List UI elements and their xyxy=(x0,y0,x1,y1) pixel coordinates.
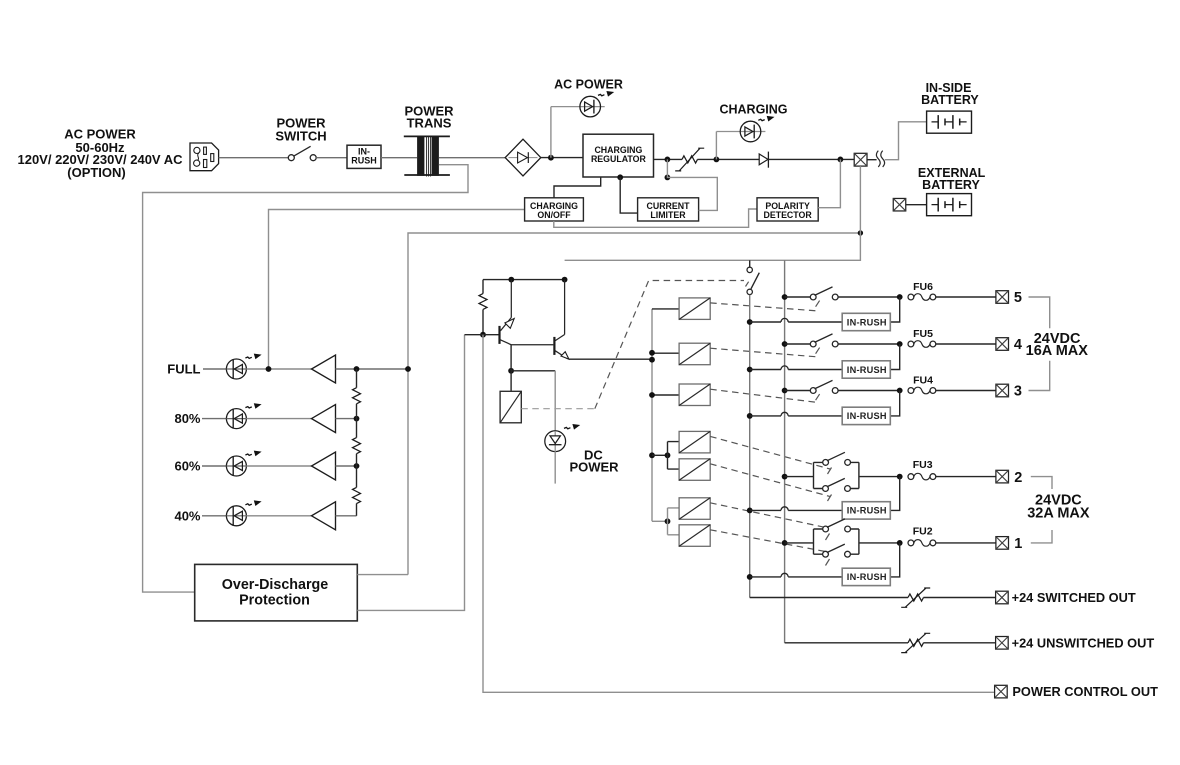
indicator LED 60% with comparator xyxy=(174,451,335,480)
svg-text:+24 SWITCHED OUT: +24 SWITCHED OUT xyxy=(1012,590,1136,605)
divider resistor R3 xyxy=(353,466,361,516)
wire in-rush return row 5 xyxy=(890,297,899,322)
wire row 3 to fuse xyxy=(838,388,903,394)
wire in-rush feed row 3 xyxy=(750,412,843,416)
wire diode to output fuse xyxy=(768,158,854,160)
junction regulator output node xyxy=(665,157,671,163)
wire FU2 to output 1 xyxy=(936,542,996,544)
relay K3 xyxy=(649,343,710,365)
wire bus to switch row 2 xyxy=(785,476,814,478)
wire regulator output xyxy=(654,158,683,160)
svg-text:IN-RUSH: IN-RUSH xyxy=(847,411,887,421)
wire row 5 to fuse xyxy=(838,294,903,300)
relay K4 xyxy=(649,384,710,406)
fuse FU3 xyxy=(908,459,936,480)
wire switch to in-rush xyxy=(316,157,347,159)
wire in-rush return row 4 xyxy=(890,344,899,370)
junction in-rush feed row 3 xyxy=(747,413,753,419)
svg-text:IN-RUSH: IN-RUSH xyxy=(847,506,887,516)
wire in-rush return row 3 xyxy=(890,391,899,416)
bias resistor R4 xyxy=(479,280,487,335)
relay K6 xyxy=(679,459,710,481)
dashed linkage K2 to switch 5 xyxy=(710,301,819,311)
bridge rectifier BR1 xyxy=(505,139,541,176)
in-rush block row 5 xyxy=(842,313,890,330)
wire base rail xyxy=(465,334,499,336)
svg-text:32A MAX: 32A MAX xyxy=(1027,506,1090,522)
output connector 2 xyxy=(996,470,1022,486)
junction polarity detector tap xyxy=(838,157,844,163)
wire sense line to fuse node xyxy=(408,233,860,575)
wire FU3 to output 2 xyxy=(936,476,996,478)
svg-text:5: 5 xyxy=(1014,290,1022,306)
wire charging on/off to polarity detector xyxy=(554,209,757,227)
charging regulator block U1 xyxy=(583,134,654,177)
wire 40% comparator output xyxy=(336,515,357,517)
junction bus row 4 xyxy=(782,341,788,347)
dashed linkage K8 to switch 1b xyxy=(710,530,829,566)
wire regulator to charging on/off xyxy=(554,177,601,198)
output connector 3 xyxy=(996,384,1022,400)
relay pair K5 K6 feed xyxy=(649,442,679,470)
in-rush block row 4 xyxy=(842,361,890,378)
dashed linkage K4 to switch 3 xyxy=(710,389,819,402)
junction in-rush feed row 1 xyxy=(747,574,753,580)
wire bus to switch row 1 xyxy=(785,542,814,544)
in-rush block row 3 xyxy=(842,407,890,424)
wire in-rush feed row 4 xyxy=(750,366,843,370)
wire transformer secondary loop to over-discharge protection xyxy=(143,165,468,592)
wire 60% comparator output xyxy=(336,463,360,469)
wire FU6 to output 5 xyxy=(936,296,996,298)
wire bridge to charging regulator xyxy=(541,157,583,159)
svg-text:DETECTOR: DETECTOR xyxy=(763,210,812,220)
junction Q2 feed xyxy=(649,357,655,363)
switch contact row 4 xyxy=(785,334,839,347)
svg-text:LIMITER: LIMITER xyxy=(650,210,686,220)
svg-text:60%: 60% xyxy=(174,459,200,474)
switch contact row 5 xyxy=(785,287,839,300)
wire Q2 emitter to relay feed xyxy=(569,358,653,360)
wire in-rush feed row 2 xyxy=(750,507,843,511)
wire FULL comparator output xyxy=(336,366,411,372)
wire fusible resistor to diode xyxy=(697,158,759,160)
AC inlet connector J1 xyxy=(190,143,219,171)
svg-text:FU5: FU5 xyxy=(913,328,933,340)
svg-text:Protection: Protection xyxy=(239,593,310,609)
svg-text:FU2: FU2 xyxy=(913,525,933,537)
junction bus row 3 xyxy=(782,388,788,394)
dashed linkage K7 to switch 1a xyxy=(710,503,829,540)
transistor Q1 xyxy=(500,280,554,345)
wire to DC power LED xyxy=(511,371,555,431)
output connector 1 xyxy=(996,536,1022,552)
fuse FU2 xyxy=(908,525,936,546)
svg-text:FU4: FU4 xyxy=(913,375,933,387)
wire to in-side battery xyxy=(885,122,927,160)
svg-text:POWER: POWER xyxy=(569,460,619,475)
wire relay feed bus xyxy=(651,309,653,521)
svg-text:FU6: FU6 xyxy=(913,281,933,293)
svg-text:IN-RUSH: IN-RUSH xyxy=(847,572,887,582)
power transformer T1 xyxy=(404,104,454,177)
relay K2 xyxy=(652,298,710,320)
power switch S1 xyxy=(275,116,326,161)
wire 80% comparator output xyxy=(336,416,360,422)
transistor Q2 xyxy=(554,280,569,360)
in-rush limiter block xyxy=(347,145,381,168)
svg-text:IN-RUSH: IN-RUSH xyxy=(847,317,887,327)
svg-text:FULL: FULL xyxy=(167,362,200,377)
wire FU5 to output 4 xyxy=(936,343,996,345)
junction in-rush feed row 2 xyxy=(747,508,753,514)
junction bridge output xyxy=(548,155,554,161)
svg-text:80%: 80% xyxy=(174,411,200,426)
svg-text:IN-RUSH: IN-RUSH xyxy=(847,365,887,375)
svg-text:FU3: FU3 xyxy=(913,459,933,471)
output +24 SWITCHED OUT xyxy=(750,588,1136,607)
svg-text:AC POWER: AC POWER xyxy=(554,77,623,91)
wire FU4 to output 3 xyxy=(936,390,996,392)
junction charging LED tap xyxy=(714,157,720,163)
charging on/off block xyxy=(269,198,584,369)
fuse FU6 xyxy=(908,281,936,300)
wire in-rush feed row 5 xyxy=(750,318,843,322)
output +24 UNSWITCHED OUT xyxy=(785,633,1155,652)
svg-text:+24 UNSWITCHED OUT: +24 UNSWITCHED OUT xyxy=(1012,635,1155,650)
main DC switch S2 xyxy=(747,260,759,294)
bracket 24VDC 16A MAX xyxy=(1026,297,1089,391)
wire J1 to power switch xyxy=(219,157,289,159)
indicator LED AC POWER xyxy=(551,77,623,157)
current limiter block xyxy=(638,198,699,221)
in-rush block row 1 xyxy=(842,568,890,585)
svg-text:POWER CONTROL OUT: POWER CONTROL OUT xyxy=(1012,684,1158,699)
fuse FU1 crossed box xyxy=(854,153,867,166)
svg-text:1: 1 xyxy=(1014,536,1022,552)
junction bus row 5 xyxy=(782,294,788,300)
switch contact row 3 xyxy=(785,380,839,393)
divider resistor R1 xyxy=(353,369,361,419)
svg-text:2: 2 xyxy=(1014,470,1022,486)
wire over-discharge upper output xyxy=(357,574,408,576)
diode D1 xyxy=(759,152,768,168)
wire switch to fuse row 1 xyxy=(859,540,903,546)
wire regulator to current limiter xyxy=(617,174,637,213)
double switch row 1 xyxy=(814,519,859,557)
fuse FU5 xyxy=(908,328,936,347)
junction in-rush feed row 5 xyxy=(747,319,753,325)
svg-text:40%: 40% xyxy=(174,508,200,523)
svg-text:ON/OFF: ON/OFF xyxy=(537,210,571,220)
svg-text:(OPTION): (OPTION) xyxy=(67,165,126,180)
in-rush block row 2 xyxy=(842,502,890,519)
junction base node xyxy=(480,332,486,338)
svg-text:TRANS: TRANS xyxy=(407,116,452,131)
relay K8 xyxy=(679,525,710,547)
relay pair K7 K8 feed xyxy=(652,508,679,535)
wire below DC power LED xyxy=(554,452,556,484)
in-side battery BT1 xyxy=(921,81,979,133)
bus unswitched DC xyxy=(784,260,786,643)
output connector 4 xyxy=(996,337,1022,353)
wire in-rush feed row 1 xyxy=(750,573,843,577)
fuse FU4 xyxy=(908,375,936,394)
svg-text:RUSH: RUSH xyxy=(351,156,377,166)
svg-text:16A MAX: 16A MAX xyxy=(1026,343,1089,359)
svg-text:SWITCH: SWITCH xyxy=(275,129,326,144)
dashed linkage K3 to switch 4 xyxy=(710,348,819,357)
junction sense line fuse riser xyxy=(858,230,863,235)
junction bus row 1 xyxy=(782,540,788,546)
relay K7 xyxy=(679,498,710,520)
relay K5 xyxy=(679,431,710,453)
polarity detector block xyxy=(757,198,818,221)
bus switched DC xyxy=(749,295,751,598)
junction in-rush feed row 4 xyxy=(747,367,753,373)
junction bus row 2 xyxy=(782,474,788,480)
divider resistor R2 xyxy=(353,419,361,466)
svg-text:3: 3 xyxy=(1014,384,1022,400)
indicator LED 40% with comparator xyxy=(174,500,335,529)
junction FULL LED node xyxy=(266,366,272,372)
dashed linkage K6 to switch 2b xyxy=(710,464,831,501)
wire transformer to bridge rectifier xyxy=(439,157,505,159)
indicator LED CHARGING xyxy=(716,103,787,160)
external battery BT2 with connector xyxy=(893,166,985,216)
svg-text:Over-Discharge: Over-Discharge xyxy=(222,577,329,593)
svg-text:REGULATOR: REGULATOR xyxy=(591,154,647,164)
indicator LED 80% with comparator xyxy=(174,403,335,432)
svg-text:4: 4 xyxy=(1014,337,1022,353)
wire fuse to DC rail xyxy=(565,166,861,260)
wire in-rush return row 1 xyxy=(890,543,899,577)
svg-text:BATTERY: BATTERY xyxy=(922,178,980,192)
dashed linkage relay coil to main switch xyxy=(521,281,748,409)
wire current limiter sense xyxy=(665,159,718,210)
wire in-rush return row 2 xyxy=(890,477,899,511)
svg-text:CHARGING: CHARGING xyxy=(719,103,787,117)
wire collector rail top xyxy=(483,277,567,283)
double switch row 2 xyxy=(814,452,859,491)
net label AC POWER input ratings xyxy=(17,127,183,180)
svg-text:BATTERY: BATTERY xyxy=(921,93,979,107)
wire polarity detector to charge node xyxy=(818,159,840,207)
output connector 5 xyxy=(996,290,1022,306)
bracket 24VDC 32A MAX xyxy=(1027,477,1090,543)
dashed linkage K5 to switch 2a xyxy=(710,436,831,474)
over-discharge protection block xyxy=(195,564,358,621)
fusible resistor R-charge xyxy=(675,148,704,171)
wire in-rush to transformer xyxy=(381,157,417,159)
wire break squiggle xyxy=(867,151,885,167)
wire switch to fuse row 2 xyxy=(859,474,903,480)
junction relay coil node xyxy=(508,345,514,392)
relay coil K1 xyxy=(500,391,521,423)
indicator LED DC POWER xyxy=(545,424,619,475)
wire over-discharge lower output xyxy=(357,335,464,611)
output POWER CONTROL OUT xyxy=(483,335,1158,699)
indicator LED FULL with comparator xyxy=(167,354,335,383)
wire row 4 to fuse xyxy=(838,341,903,347)
